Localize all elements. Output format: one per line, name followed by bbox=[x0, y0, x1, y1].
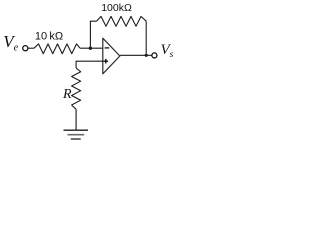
op-amp U1 triangle bbox=[103, 38, 120, 74]
op-amp minus sign bbox=[105, 47, 110, 49]
svg-text:Ve: Ve bbox=[3, 32, 18, 53]
input terminal circle Ve bbox=[23, 46, 28, 51]
resistor R2 zigzag 100k bbox=[97, 16, 147, 26]
wire R to ground bbox=[75, 109, 77, 130]
svg-text:R: R bbox=[62, 87, 72, 102]
svg-text:Vs: Vs bbox=[161, 42, 174, 60]
svg-text:100kΩ: 100kΩ bbox=[101, 2, 132, 14]
node A junction dot bbox=[89, 47, 92, 50]
node B junction dot output bbox=[145, 54, 148, 57]
wire feedback right riser bbox=[145, 21, 147, 55]
wire terminal to R1 bbox=[28, 47, 34, 49]
resistor R1 zigzag bbox=[34, 44, 80, 54]
wire feedback left riser bbox=[90, 21, 96, 48]
op-amp plus sign bbox=[104, 59, 109, 64]
ground symbol bbox=[68, 134, 85, 136]
wire R1 to op-amp inverting input bbox=[80, 47, 103, 49]
output terminal circle Vs bbox=[152, 53, 157, 58]
resistor R vertical zigzag bbox=[72, 68, 81, 109]
svg-text:10 kΩ: 10 kΩ bbox=[35, 31, 63, 43]
wire op-amp non-inverting input bbox=[76, 61, 103, 68]
wire op-amp output bbox=[120, 54, 152, 56]
